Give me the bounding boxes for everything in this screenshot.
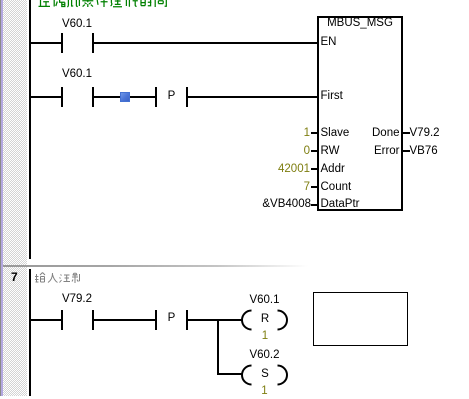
network 6 comment text (green, cut off at top) xyxy=(38,0,171,8)
wire P contact to First (rung 2) xyxy=(188,96,317,98)
coil R label V60.1 xyxy=(249,295,279,307)
coil R value 1 xyxy=(262,331,268,343)
contact V60.1 right bar (rung 1) xyxy=(92,33,94,53)
coil S letter xyxy=(261,369,269,381)
wire contact to EN (rung 1) xyxy=(94,42,317,44)
selection cursor blue square xyxy=(120,92,130,102)
pin tick DataPtr xyxy=(311,204,317,206)
pin tick Error xyxy=(403,150,410,152)
branch wire to S coil xyxy=(219,373,243,375)
value 1 (Slave) xyxy=(304,128,310,140)
pin label DataPtr xyxy=(321,199,360,211)
contact V60.1 right bar (rung 2) xyxy=(92,87,94,107)
wire contact to P contact (rung 3) xyxy=(94,319,155,321)
contact P right bar (rung 2) xyxy=(186,87,188,107)
network number 7 xyxy=(11,270,21,284)
pin label Done xyxy=(372,128,400,140)
contact P letter (rung 3) xyxy=(168,313,176,325)
pin label First xyxy=(321,91,343,103)
network 6 left power rail xyxy=(29,0,31,259)
pin tick Done xyxy=(403,132,410,134)
contact P right bar (rung 3) xyxy=(186,310,188,330)
pin label Error xyxy=(374,146,400,158)
value 0 (RW) xyxy=(304,146,310,158)
contact V60.1 left bar (rung 2) xyxy=(61,87,63,107)
wire rail to contact (rung 2) xyxy=(31,96,61,98)
wire contact to P contact (rung 2) xyxy=(94,96,155,98)
pin label Count xyxy=(321,182,352,194)
output operand V79.2 (Done) xyxy=(410,128,440,140)
contact P left bar (rung 3) xyxy=(155,310,157,330)
gutter lavender stripe xyxy=(1,0,3,396)
wire rail to contact (rung 1) xyxy=(31,42,61,44)
network separator line xyxy=(3,265,308,267)
pin label Slave xyxy=(321,128,350,140)
gutter edge gray line xyxy=(0,0,1,396)
pin label RW xyxy=(321,146,340,158)
contact P left bar (rung 2) xyxy=(155,87,157,107)
gutter checkered margin xyxy=(3,0,27,396)
contact V79.2 right bar (rung 3) xyxy=(92,310,94,330)
pin tick Addr xyxy=(311,168,317,170)
contact V79.2 label (rung 3) xyxy=(62,294,92,306)
contact V60.1 label (rung 1) xyxy=(62,19,92,31)
pin label EN xyxy=(321,37,337,49)
pin label Addr xyxy=(321,164,345,176)
pin tick Count xyxy=(311,186,317,188)
value 7 (Count) xyxy=(304,182,310,194)
value &VB4008 (DataPtr) xyxy=(262,199,311,211)
output operand VB76 (Error) xyxy=(410,146,438,158)
coil S value 1 xyxy=(261,386,267,398)
coil R letter xyxy=(261,314,269,326)
coil S label V60.2 xyxy=(249,350,279,362)
contact V79.2 left bar (rung 3) xyxy=(61,310,63,330)
network 7 title (gray chinese) xyxy=(35,272,81,284)
wire P contact to R coil (rung 3) xyxy=(188,319,243,321)
pin tick RW xyxy=(311,150,317,152)
branch vertical wire xyxy=(217,319,219,375)
block title MBUS_MSG xyxy=(327,18,393,30)
pin tick Slave xyxy=(311,132,317,134)
function block MBUS_MSG box xyxy=(317,16,403,211)
contact P letter (rung 2) xyxy=(168,91,176,103)
wire rail to contact (rung 3) xyxy=(31,319,61,321)
coil S symbol xyxy=(240,363,290,387)
contact V60.1 left bar (rung 1) xyxy=(61,33,63,53)
coil R symbol xyxy=(240,308,290,332)
network 7 left power rail xyxy=(29,269,31,396)
value 42001 (Addr) xyxy=(278,164,310,176)
empty network edit box xyxy=(313,292,408,346)
contact V60.1 label (rung 2) xyxy=(62,69,92,81)
